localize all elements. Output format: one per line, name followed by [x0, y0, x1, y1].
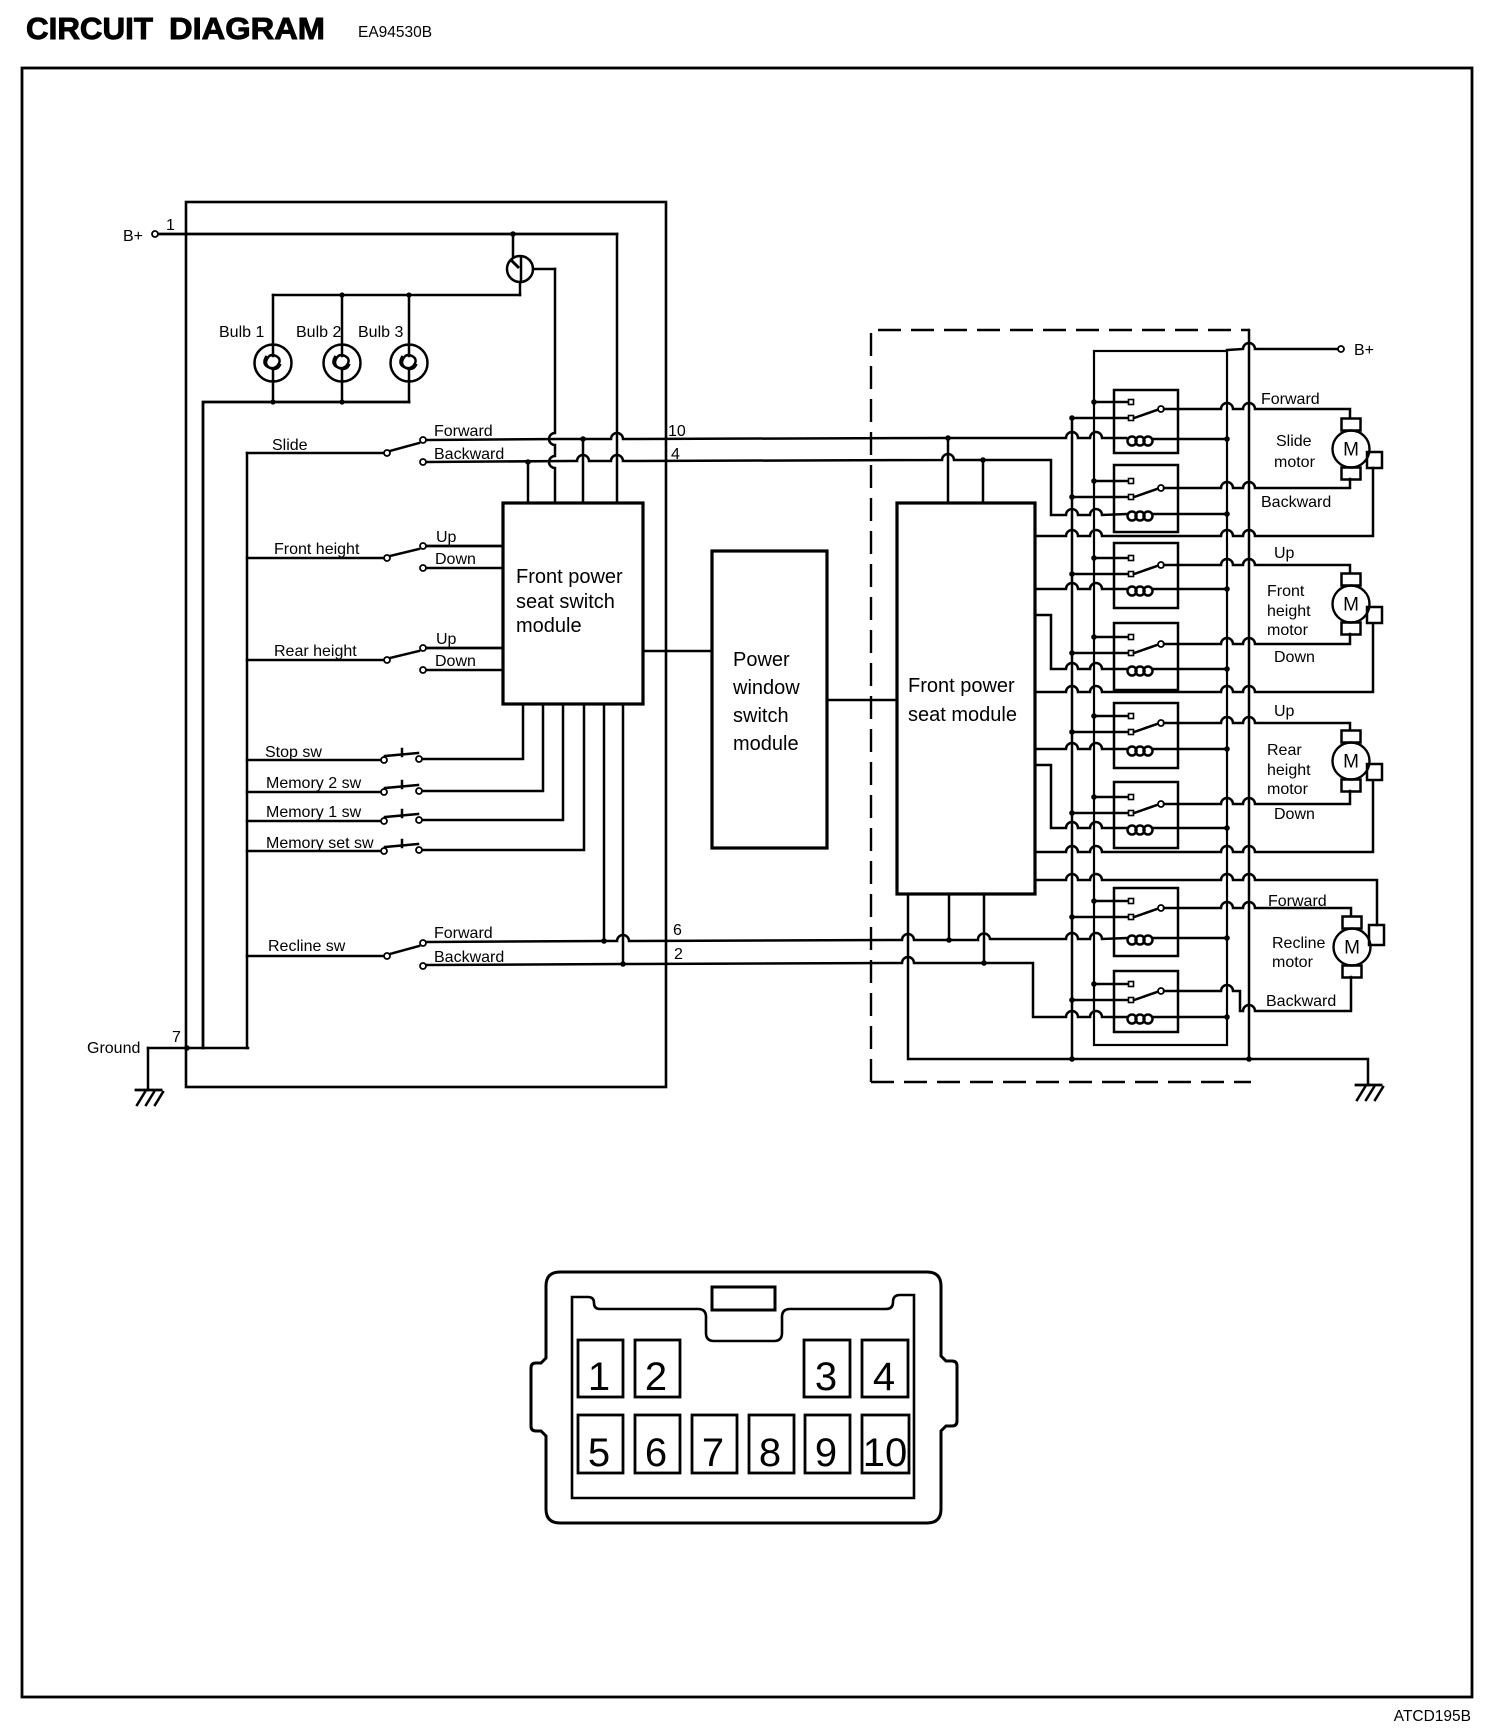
- svg-text:5: 5: [588, 1431, 610, 1475]
- svg-text:7: 7: [702, 1431, 724, 1475]
- svg-text:Forward: Forward: [434, 423, 493, 440]
- svg-text:window: window: [732, 677, 800, 699]
- svg-text:Bulb 1: Bulb 1: [219, 324, 264, 341]
- svg-text:M: M: [1344, 938, 1360, 959]
- svg-text:motor: motor: [1267, 781, 1309, 798]
- svg-text:DIAGRAM: DIAGRAM: [169, 11, 325, 46]
- svg-text:Backward: Backward: [1261, 494, 1331, 511]
- svg-text:Forward: Forward: [434, 925, 493, 942]
- svg-text:2: 2: [645, 1355, 667, 1399]
- svg-text:Forward: Forward: [1268, 893, 1327, 910]
- svg-text:Front: Front: [1267, 583, 1305, 600]
- svg-text:Slide: Slide: [1276, 433, 1312, 450]
- svg-text:seat switch: seat switch: [516, 591, 615, 613]
- svg-text:Rear height: Rear height: [274, 643, 357, 660]
- svg-text:Ground: Ground: [87, 1040, 140, 1057]
- svg-text:2: 2: [674, 946, 683, 963]
- svg-text:Up: Up: [1274, 703, 1295, 720]
- svg-text:motor: motor: [1267, 622, 1309, 639]
- svg-text:Recline sw: Recline sw: [268, 938, 346, 955]
- svg-text:Stop sw: Stop sw: [265, 744, 322, 761]
- svg-text:Front height: Front height: [274, 541, 360, 558]
- svg-text:module: module: [733, 733, 799, 755]
- svg-text:height: height: [1267, 603, 1311, 620]
- svg-text:Rear: Rear: [1267, 742, 1302, 759]
- svg-text:B+: B+: [123, 228, 143, 245]
- svg-text:Down: Down: [435, 551, 476, 568]
- svg-text:Down: Down: [435, 653, 476, 670]
- svg-text:8: 8: [759, 1431, 781, 1475]
- svg-text:module: module: [516, 615, 582, 637]
- svg-text:height: height: [1267, 762, 1311, 779]
- svg-text:seat module: seat module: [908, 704, 1017, 726]
- svg-text:B+: B+: [1354, 342, 1374, 359]
- svg-text:Up: Up: [436, 529, 457, 546]
- svg-text:10: 10: [668, 423, 686, 440]
- svg-text:Forward: Forward: [1261, 391, 1320, 408]
- svg-text:M: M: [1343, 752, 1359, 773]
- svg-text:Up: Up: [1274, 545, 1295, 562]
- svg-text:Slide: Slide: [272, 437, 308, 454]
- svg-text:1: 1: [166, 217, 175, 234]
- svg-text:Recline: Recline: [1272, 935, 1325, 952]
- svg-text:Down: Down: [1274, 806, 1315, 823]
- svg-text:Memory 1 sw: Memory 1 sw: [266, 804, 362, 821]
- svg-text:ATCD195B: ATCD195B: [1394, 1708, 1471, 1725]
- svg-text:EA94530B: EA94530B: [358, 24, 432, 41]
- svg-text:6: 6: [673, 922, 682, 939]
- svg-text:10: 10: [863, 1431, 908, 1475]
- svg-text:M: M: [1343, 440, 1359, 461]
- svg-text:3: 3: [815, 1355, 837, 1399]
- svg-text:Up: Up: [436, 631, 457, 648]
- svg-text:Down: Down: [1274, 649, 1315, 666]
- svg-text:CIRCUIT: CIRCUIT: [26, 11, 153, 46]
- svg-text:Memory 2 sw: Memory 2 sw: [266, 775, 362, 792]
- svg-text:Backward: Backward: [1266, 993, 1336, 1010]
- svg-text:9: 9: [815, 1431, 837, 1475]
- svg-text:Memory set sw: Memory set sw: [266, 835, 374, 852]
- svg-text:1: 1: [588, 1355, 610, 1399]
- svg-text:7: 7: [172, 1029, 181, 1046]
- svg-text:6: 6: [645, 1431, 667, 1475]
- svg-text:4: 4: [873, 1355, 895, 1399]
- svg-text:motor: motor: [1272, 954, 1314, 971]
- svg-text:Bulb 3: Bulb 3: [358, 324, 403, 341]
- svg-text:Front power: Front power: [516, 566, 623, 588]
- svg-text:Power: Power: [733, 649, 790, 671]
- svg-text:motor: motor: [1274, 454, 1316, 471]
- svg-text:Bulb 2: Bulb 2: [296, 324, 341, 341]
- svg-text:Front power: Front power: [908, 675, 1015, 697]
- svg-text:M: M: [1343, 595, 1359, 616]
- svg-text:switch: switch: [733, 705, 789, 727]
